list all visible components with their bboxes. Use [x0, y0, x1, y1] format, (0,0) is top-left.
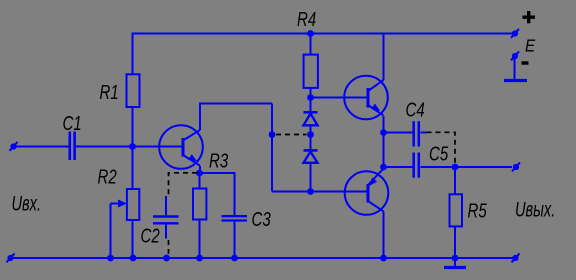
- label C1: [63, 112, 82, 135]
- wire VD1 to mid node: [310, 125, 312, 134]
- potentiometer R2 wiper arrow: [111, 200, 128, 259]
- svg-text:Uвх.: Uвх.: [12, 191, 42, 216]
- wire emitter node to R3: [199, 173, 201, 189]
- terminal bottom left: [7, 253, 15, 262]
- wire input line right to base: [76, 146, 183, 148]
- label R2: [98, 165, 117, 188]
- node V1 emitter: [196, 170, 203, 177]
- wire R1 bottom lead: [132, 107, 134, 147]
- wire dashed C4 to output link: [427, 132, 456, 163]
- transistor V3 (PNP lower): [345, 169, 389, 215]
- label R5: [468, 199, 487, 222]
- node bottom rail R2 wiper: [107, 255, 114, 262]
- node diode midpoint: [307, 131, 314, 138]
- node bottom rail V3 collector: [380, 255, 387, 262]
- label E source: [525, 35, 536, 55]
- transistor V2 (NPN upper): [344, 76, 388, 120]
- capacitor C3: [222, 216, 248, 220]
- node bottom rail C2: [163, 255, 170, 262]
- wire V2 collector to rail: [383, 34, 385, 81]
- wire C3 bottom lead: [234, 222, 236, 259]
- wire node to diode VD1: [310, 98, 312, 113]
- capacitor C4: [414, 121, 419, 146]
- wire V1 emitter to node: [199, 166, 201, 173]
- node bottom rail C3: [231, 255, 238, 262]
- svg-text:R4: R4: [297, 8, 316, 31]
- node bottom rail R3: [196, 255, 203, 262]
- resistor R4: [304, 34, 318, 98]
- svg-text:R1: R1: [100, 81, 119, 104]
- node diode bottom on base line: [307, 188, 314, 195]
- label R3: [209, 149, 228, 172]
- wire emitter node to C3: [200, 173, 235, 215]
- node R4 top rail: [307, 30, 314, 37]
- label C3: [252, 208, 271, 231]
- wire mid node to VD2: [310, 135, 312, 151]
- terminal E plus: [511, 29, 519, 38]
- svg-text:R2: R2: [98, 165, 117, 188]
- node bottom rail R5/ground: [452, 255, 459, 262]
- svg-text:C5: C5: [429, 142, 448, 165]
- wire V1 collector up and across: [200, 104, 272, 131]
- node input/R1/R2 junction: [129, 143, 136, 150]
- node R5 top: [452, 164, 459, 171]
- svg-text:Uвых.: Uвых.: [515, 197, 555, 222]
- svg-text:R5: R5: [468, 199, 487, 222]
- resistor R3: [193, 189, 206, 220]
- terminal input: [10, 142, 18, 151]
- resistor R2 potentiometer body: [127, 147, 139, 259]
- wire V3 collector to rail: [383, 211, 385, 258]
- svg-text:R3: R3: [209, 149, 228, 172]
- node C4 tap: [380, 129, 387, 136]
- node bottom rail R2: [130, 255, 137, 262]
- node dashed tap on collector drop: [269, 131, 276, 138]
- capacitor C5: [414, 153, 419, 178]
- label Uvx input: [12, 191, 42, 216]
- wire bottom common rail: [12, 257, 514, 259]
- wire to C4: [384, 132, 413, 134]
- plus sign: [523, 11, 536, 23]
- wire V2 base: [311, 97, 369, 99]
- wire top supply rail: [133, 33, 513, 35]
- wire to C5: [384, 166, 413, 168]
- ground symbol: [444, 258, 466, 268]
- capacitor C2: [153, 196, 179, 239]
- terminal output: [512, 162, 520, 171]
- wire output column: [383, 116, 385, 168]
- terminal E minus: [511, 51, 519, 60]
- wire dashed diode tap link: [276, 134, 307, 136]
- svg-text:E: E: [525, 35, 536, 55]
- wire VD2 bottom lead: [310, 163, 312, 192]
- transistor V1 (NPN): [159, 125, 203, 169]
- resistor R1: [127, 74, 140, 107]
- terminal bottom right: [512, 253, 520, 262]
- svg-text:C2: C2: [141, 224, 160, 247]
- label C5: [429, 142, 448, 165]
- label Uvyx output: [515, 197, 555, 222]
- label R1: [100, 81, 119, 104]
- wire C4 right stub: [421, 132, 427, 134]
- svg-text:C4: C4: [406, 98, 425, 121]
- wire R3 bottom lead: [199, 220, 201, 259]
- wire collector drop to lower base line: [271, 104, 273, 192]
- capacitor C1: [70, 132, 75, 161]
- wire E minus lead: [504, 56, 527, 81]
- label C2: [141, 224, 160, 247]
- wire lower base line: [272, 191, 368, 193]
- diode VD1: [304, 112, 318, 125]
- label C4: [406, 98, 425, 121]
- wire C5 to output terminal: [421, 166, 513, 168]
- diode VD2: [304, 150, 318, 162]
- node R4 bottom / V2 base: [307, 94, 314, 101]
- minus sign: [522, 61, 529, 64]
- resistor R5: [450, 167, 463, 258]
- wire dashed C2 link: [169, 173, 198, 254]
- svg-text:C3: C3: [252, 208, 271, 231]
- wire R1 column top: [132, 33, 134, 75]
- wire input line left: [14, 146, 69, 148]
- node output / C5 tap: [380, 164, 387, 171]
- label R4: [297, 8, 316, 31]
- svg-text:C1: C1: [63, 112, 82, 135]
